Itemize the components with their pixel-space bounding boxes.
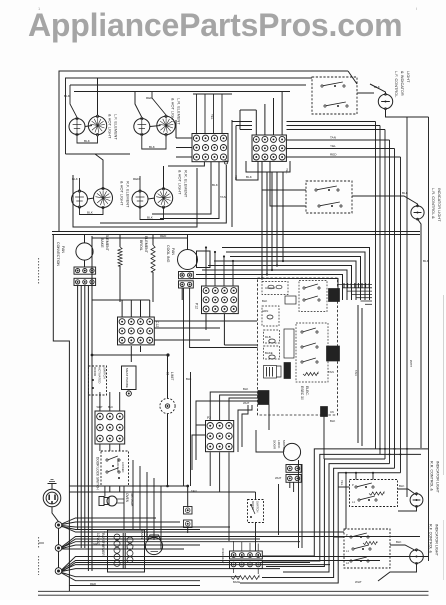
- svg-text:BLK: BLK: [246, 175, 253, 179]
- svg-text:TAN: TAN: [328, 370, 334, 374]
- svg-text:OVEN: OVEN: [125, 493, 129, 503]
- svg-text:WHT: WHT: [409, 360, 413, 367]
- svg-text:YEL: YEL: [330, 144, 336, 148]
- svg-text:LOCKED: LOCKED: [121, 462, 124, 472]
- svg-text:R.F. ELEMENT: R.F. ELEMENT: [126, 181, 131, 208]
- svg-text:BLK: BLK: [212, 183, 219, 187]
- svg-text:BLK: BLK: [64, 94, 71, 98]
- svg-text:BLK: BLK: [262, 299, 267, 303]
- svg-text:INDICATOR LIGHT: INDICATOR LIGHT: [435, 524, 439, 557]
- svg-text:DOOR: DOOR: [93, 367, 97, 377]
- svg-text:ACTIVATED: ACTIVATED: [98, 367, 102, 384]
- svg-text:BLK: BLK: [402, 191, 409, 195]
- svg-text:ELEMENT: ELEMENT: [105, 234, 109, 252]
- svg-text:L.F. CONTROL: L.F. CONTROL: [394, 71, 399, 98]
- svg-text:BLK: BLK: [330, 419, 335, 423]
- svg-text:BLK: BLK: [72, 177, 79, 181]
- svg-text:RED: RED: [160, 234, 167, 238]
- svg-text:R.R. ELEMENT: R.R. ELEMENT: [184, 170, 189, 198]
- svg-text:ELEC.: ELEC.: [305, 386, 309, 396]
- svg-text:DOOR: DOOR: [273, 440, 277, 450]
- svg-text:TAN: TAN: [330, 136, 336, 140]
- svg-text:BLK: BLK: [243, 387, 248, 391]
- svg-text:BROIL: BROIL: [139, 240, 143, 251]
- svg-text:BLK: BLK: [87, 211, 94, 215]
- svg-text:ESEC 30: ESEC 30: [300, 386, 304, 400]
- svg-text:LIGHT: LIGHT: [406, 71, 411, 83]
- svg-text:BLK: BLK: [399, 484, 405, 488]
- svg-text:BAKE: BAKE: [233, 580, 240, 584]
- svg-text:BLK: BLK: [147, 216, 154, 220]
- svg-text:P: P: [352, 483, 354, 487]
- svg-text:P: P: [346, 533, 348, 537]
- svg-text:LIMIT: LIMIT: [170, 372, 174, 380]
- svg-text:BAKE: BAKE: [100, 238, 104, 248]
- svg-text:& HOT LIGHT: & HOT LIGHT: [108, 114, 113, 139]
- svg-text:I: I: [416, 6, 417, 11]
- svg-text:P12: P12: [195, 303, 199, 309]
- svg-text:INDICATOR LIGHT: INDICATOR LIGHT: [436, 461, 440, 494]
- svg-text:L.R. ELEMENT: L.R. ELEMENT: [177, 98, 182, 125]
- svg-text:BAKE: BAKE: [265, 351, 273, 355]
- svg-text:BLK: BLK: [149, 145, 156, 149]
- svg-text:WHT: WHT: [243, 401, 250, 405]
- svg-text:FAN: FAN: [171, 248, 175, 255]
- svg-text:SWITCH: SWITCH: [256, 501, 260, 512]
- svg-text:WHT: WHT: [355, 580, 362, 584]
- svg-text:OVEN VENT: OVEN VENT: [221, 548, 225, 564]
- svg-text:BLK: BLK: [423, 259, 430, 263]
- svg-text:YEL: YEL: [340, 480, 344, 486]
- svg-text:SWITCH: SWITCH: [102, 367, 106, 379]
- svg-text:INDICATOR LIGHT: INDICATOR LIGHT: [437, 188, 442, 222]
- svg-text:BLK: BLK: [84, 139, 91, 143]
- svg-text:YEL: YEL: [285, 168, 289, 174]
- svg-text:& HOT LIGHT: & HOT LIGHT: [178, 170, 183, 195]
- svg-text:DLB: DLB: [265, 335, 271, 339]
- svg-text:R.F. CONTROL &: R.F. CONTROL &: [429, 524, 433, 553]
- svg-text:UNLOCKED: UNLOCKED: [116, 458, 119, 472]
- svg-text:R.R. CONTROL &: R.R. CONTROL &: [430, 461, 434, 491]
- svg-text:12 VOLT: 12 VOLT: [96, 533, 100, 546]
- svg-text:BLK: BLK: [374, 85, 381, 89]
- svg-text:L.F. ELEMENT: L.F. ELEMENT: [114, 114, 119, 140]
- svg-text:C12: C12: [155, 321, 159, 327]
- svg-text:CONVECTION: CONVECTION: [56, 242, 60, 266]
- svg-text:RED: RED: [146, 96, 153, 100]
- svg-text:L.R. CONTROL &: L.R. CONTROL &: [431, 188, 436, 219]
- svg-text:TAN: TAN: [354, 370, 358, 376]
- svg-text:BLK: BLK: [186, 377, 192, 381]
- svg-text:FAN: FAN: [61, 246, 65, 253]
- svg-text:ELEMENT: ELEMENT: [144, 236, 148, 254]
- svg-text:OVEN: OVEN: [140, 530, 144, 539]
- svg-text:WHT: WHT: [275, 476, 282, 480]
- svg-text:P2: P2: [207, 416, 211, 420]
- svg-text:TAN: TAN: [220, 195, 226, 199]
- svg-text:DOOR LOCK SWITCH: DOOR LOCK SWITCH: [96, 457, 100, 490]
- svg-text:& INDICATOR: & INDICATOR: [400, 71, 405, 96]
- svg-text:COOL ING: COOL ING: [166, 245, 170, 263]
- svg-text:WHT: WHT: [97, 405, 103, 409]
- svg-text:MEAT PROBE: MEAT PROBE: [125, 368, 129, 388]
- svg-text:C6: C6: [330, 410, 334, 414]
- svg-text:YEL: YEL: [210, 114, 214, 120]
- svg-text:TRANSFORMER: TRANSFORMER: [101, 531, 105, 556]
- svg-text:RED: RED: [133, 177, 140, 181]
- svg-text:BLK: BLK: [396, 540, 402, 544]
- svg-text:& HOT LIGHT: & HOT LIGHT: [171, 98, 176, 123]
- svg-text:GRN: GRN: [262, 309, 268, 313]
- svg-text:BLK: BLK: [108, 405, 113, 409]
- svg-text:RED: RED: [330, 153, 337, 157]
- svg-text:& HOT LIGHT: & HOT LIGHT: [120, 181, 125, 206]
- svg-text:LOCK: LOCK: [277, 440, 281, 449]
- svg-text:AppliancePartsPros.com: AppliancePartsPros.com: [28, 7, 402, 43]
